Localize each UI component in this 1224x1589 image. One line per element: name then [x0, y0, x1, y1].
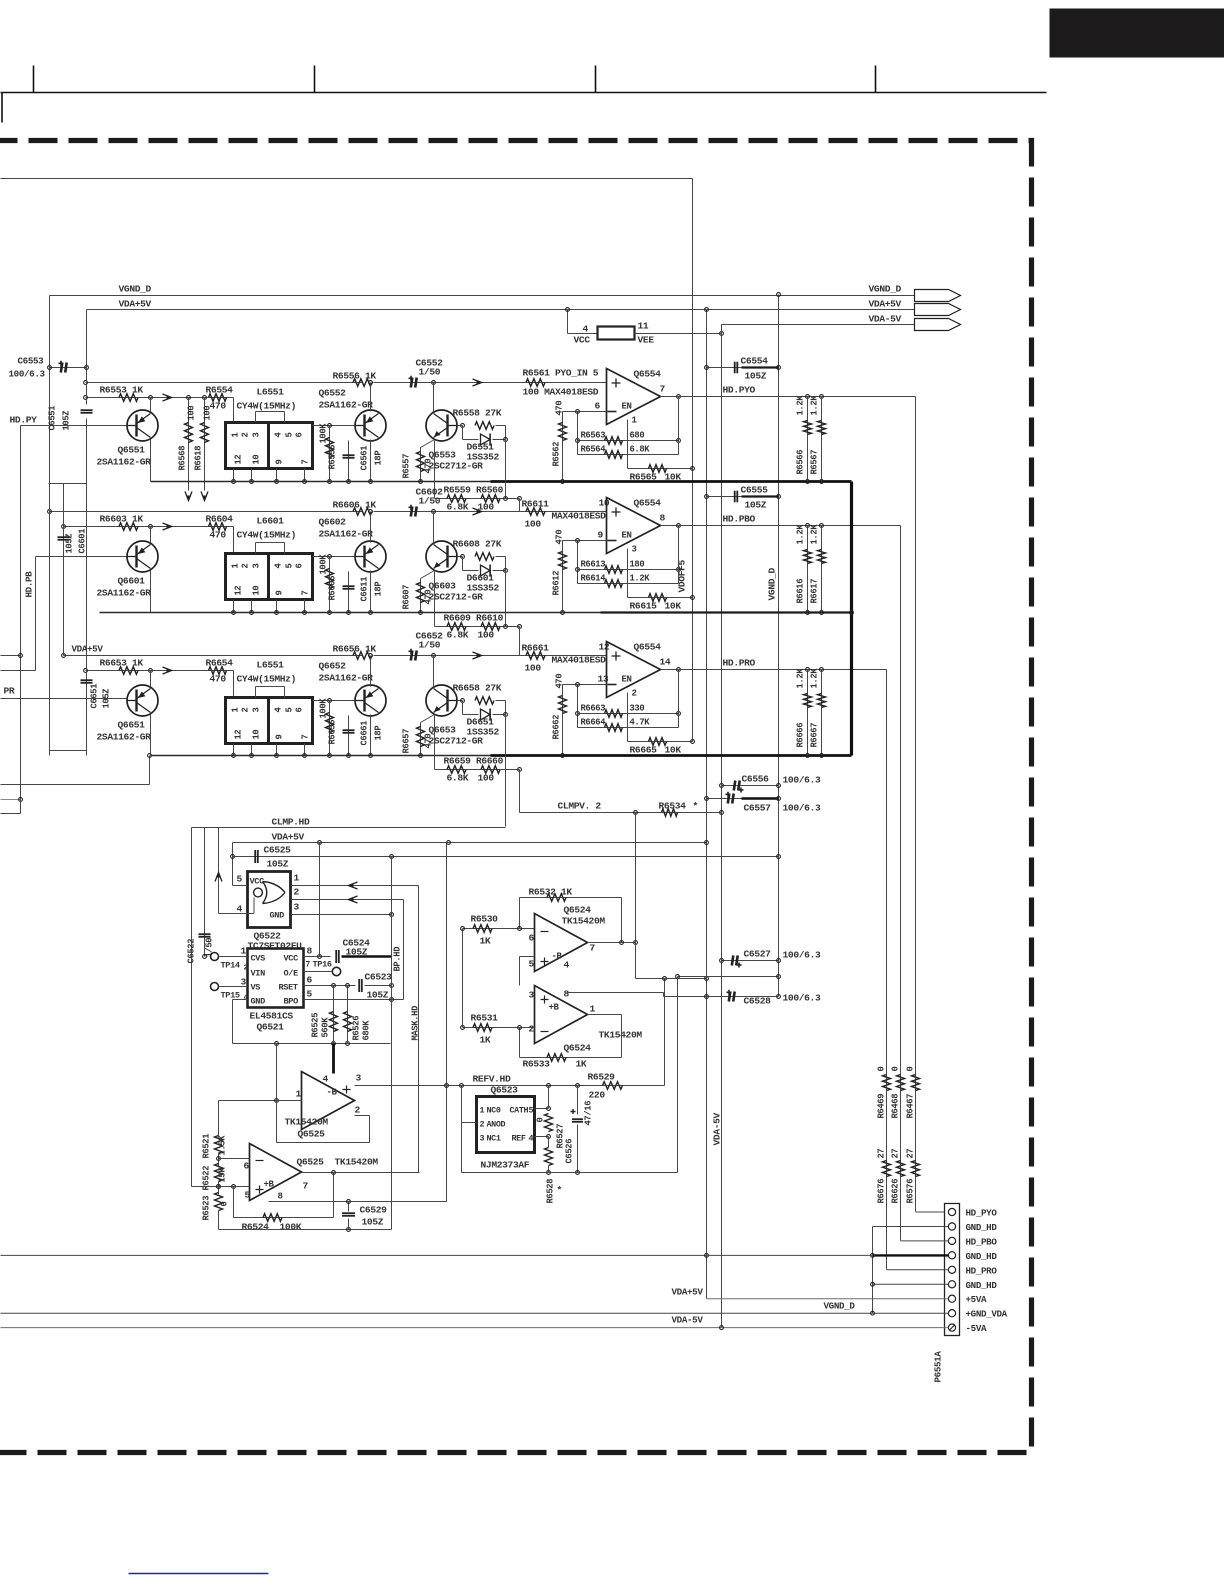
svg-text:3: 3 — [356, 1073, 362, 1084]
resistor 470 input — [559, 696, 567, 714]
tick mark 3 — [595, 66, 597, 93]
svg-text:18P: 18P — [374, 726, 384, 741]
svg-text:15K: 15K — [218, 1167, 228, 1183]
svg-text:-5VA: -5VA — [966, 1323, 987, 1334]
junction — [504, 569, 508, 573]
wire op2 +in — [192, 1186, 250, 1188]
wire left rail A — [49, 296, 51, 756]
wire PR bias path — [86, 670, 234, 672]
junction — [19, 654, 23, 658]
wire NJM bottom — [462, 1172, 678, 1174]
svg-text:100K: 100K — [319, 698, 329, 719]
junction — [390, 984, 394, 988]
svg-text:9: 9 — [275, 591, 285, 596]
wire coupling to R6534 — [519, 770, 521, 813]
junction — [232, 480, 236, 484]
rail row PY — [151, 481, 852, 483]
capacitor C6525 105Z — [254, 850, 256, 863]
svg-text:R6616: R6616 — [796, 579, 806, 604]
wire L bottom stub — [304, 744, 306, 756]
junction — [504, 438, 508, 442]
wire VDOFF5 vertical — [692, 179, 694, 742]
wire chain mid1 — [218, 1154, 220, 1167]
wire L out to Q6602 — [313, 556, 355, 558]
resistor R6611 100 — [526, 508, 545, 516]
resistor R6469 0 — [883, 1075, 891, 1091]
wire L bottom stub — [251, 600, 253, 613]
connector pin 8 +GND_VDA — [948, 1310, 955, 1317]
svg-text:BPO: BPO — [284, 997, 299, 1007]
wire fb b — [578, 727, 679, 729]
junction — [547, 1135, 551, 1139]
svg-text:VGND_D: VGND_D — [869, 284, 902, 295]
wire HD.PY down — [20, 426, 22, 800]
svg-text:+B: +B — [264, 1180, 275, 1190]
q6524a + sign — [541, 958, 549, 966]
svg-text:4: 4 — [323, 1074, 329, 1085]
svg-text:R6525: R6525 — [311, 1013, 321, 1038]
svg-text:BP.HD: BP.HD — [393, 947, 403, 972]
resistor 100K — [326, 569, 334, 589]
junction — [777, 797, 781, 801]
wire none — [219, 856, 233, 858]
svg-text:R6608 27K: R6608 27K — [453, 539, 502, 550]
svg-text:470: 470 — [210, 674, 227, 685]
svg-text:8: 8 — [278, 1192, 283, 1202]
svg-text:2: 2 — [294, 887, 300, 898]
wire C6526 top — [577, 1086, 579, 1115]
svg-text:L6601: L6601 — [257, 516, 285, 527]
svg-text:7: 7 — [301, 735, 311, 740]
junction — [347, 1200, 351, 1204]
svg-text:5: 5 — [285, 433, 295, 438]
svg-text:HD_PYO: HD_PYO — [966, 1208, 998, 1219]
svg-text:5: 5 — [285, 564, 295, 569]
wire CATH out — [535, 1108, 549, 1110]
svg-text:C6661: C6661 — [360, 721, 370, 746]
junction — [518, 497, 522, 501]
wire L bottom stub — [251, 469, 253, 482]
svg-text:100/6.3: 100/6.3 — [783, 950, 821, 961]
wire C6522 drop — [204, 828, 206, 957]
junction — [576, 1171, 580, 1175]
svg-text:1/50: 1/50 — [419, 367, 441, 378]
wire L bottom stub — [276, 469, 278, 482]
svg-text:1: 1 — [231, 433, 241, 438]
svg-text:470: 470 — [555, 674, 565, 689]
svg-text:R6656 1K: R6656 1K — [333, 644, 377, 655]
wire opamp out — [661, 396, 679, 398]
wire left rail B upper — [86, 310, 88, 405]
flow arrow on PY bias — [163, 394, 172, 401]
wire r6528 top — [548, 1137, 550, 1148]
svg-text:470: 470 — [555, 401, 565, 416]
svg-text:9: 9 — [275, 735, 285, 740]
svg-text:Q6554: Q6554 — [634, 369, 662, 380]
arrow left pin2 — [349, 896, 358, 903]
capacitor C6556 100/6.3 — [734, 781, 736, 791]
junction — [217, 1157, 221, 1161]
op-amp Q6525 TK15420M upper — [302, 1072, 355, 1130]
wire 1.2K drop — [821, 670, 823, 756]
junction — [705, 841, 709, 845]
resistor R6667 1.2K — [818, 694, 826, 708]
svg-text:R6614: R6614 — [581, 574, 607, 584]
wire left rail C — [63, 484, 65, 656]
wire fb2 right — [621, 1015, 623, 1058]
wire none2 — [520, 986, 535, 994]
svg-text:R6468: R6468 — [891, 1094, 901, 1119]
wire chain mid2 — [218, 1182, 220, 1195]
wire Q6603 emitter to coupling — [434, 572, 436, 627]
svg-text:+GND_VDA: +GND_VDA — [966, 1309, 1008, 1320]
svg-text:R6528: R6528 — [546, 1179, 556, 1204]
wire C6528 net — [664, 996, 779, 998]
resistor R6566 1.2K — [804, 421, 812, 435]
wire chain bottom — [218, 1211, 220, 1230]
wire Q6601 emitter down — [150, 571, 152, 613]
svg-text:GND_HD: GND_HD — [966, 1222, 998, 1233]
resistor R6618 100 — [201, 423, 209, 443]
junction — [871, 1254, 875, 1258]
svg-text:R6603 1K: R6603 1K — [100, 514, 144, 525]
svg-text:VDA+5V: VDA+5V — [272, 832, 305, 843]
junction — [576, 683, 580, 687]
svg-text:220: 220 — [589, 1090, 606, 1101]
svg-text:1/50: 1/50 — [205, 938, 215, 958]
junction — [677, 524, 681, 528]
wire L top bracket — [256, 411, 285, 413]
junction — [148, 754, 152, 758]
wire 10K to VDOFF5 — [628, 597, 693, 599]
svg-text:R6529: R6529 — [588, 1072, 616, 1083]
wire pin2 GND — [873, 1226, 949, 1228]
wire HD.PBO net — [679, 525, 901, 527]
wire VDA-5V rail — [722, 324, 915, 326]
wire q6524a +in — [520, 956, 535, 958]
wire PY signal to opamp — [374, 382, 607, 384]
wire Q6602 up — [370, 512, 372, 543]
resistor R6533 1K — [547, 1054, 566, 1062]
resistor R6531 1K — [473, 1024, 492, 1032]
op-amp Q6524 TK15420M upper — [535, 914, 588, 972]
capacitor 18P C6561 — [343, 454, 355, 456]
wire fb right — [369, 1116, 371, 1143]
svg-text:1K: 1K — [480, 1035, 491, 1046]
wire HD_PYO drop — [915, 397, 917, 1212]
wire HD.PYO net — [679, 396, 916, 398]
svg-text:R6659 R6660: R6659 R6660 — [444, 756, 504, 767]
wire 27K to node — [496, 556, 506, 558]
svg-text:R6534: R6534 — [659, 801, 687, 812]
wire -in drop — [577, 412, 579, 455]
wire MASK.HD vertical — [418, 886, 420, 1173]
inductor L6601 CY4W(15MHz) — [226, 554, 313, 600]
svg-text:10K: 10K — [665, 745, 682, 756]
wire out to fb — [678, 526, 680, 584]
wire +B net — [269, 1201, 447, 1203]
net flag arrow 1 — [915, 290, 961, 302]
wire L top bracket — [256, 542, 285, 544]
svg-text:R6555: R6555 — [328, 445, 338, 470]
junction — [806, 754, 810, 758]
junction — [566, 308, 570, 312]
svg-text:3: 3 — [632, 545, 637, 555]
wire R6534 net — [520, 812, 722, 814]
junction — [504, 713, 508, 717]
capacitor C6557 100/6.3 — [728, 794, 730, 804]
junction — [203, 396, 207, 400]
wire 470 drop — [420, 448, 422, 482]
junction — [720, 811, 724, 815]
svg-text:R6568: R6568 — [178, 446, 188, 471]
svg-text:C6527: C6527 — [744, 949, 772, 960]
wire L bottom stub — [304, 600, 306, 613]
wire C6556 net — [722, 785, 779, 787]
dashed schematic frame — [0, 141, 1032, 1453]
resistor 100 R6660 — [481, 766, 500, 774]
wire 27K to node — [496, 700, 506, 702]
svg-text:4: 4 — [274, 432, 284, 438]
junction — [419, 480, 423, 484]
svg-text:4: 4 — [583, 324, 589, 335]
junction — [275, 754, 279, 758]
svg-text:VDA+5V: VDA+5V — [869, 299, 902, 310]
wire to 27K — [458, 700, 463, 702]
resistor R6554 470 — [209, 394, 227, 402]
capacitor C6523 105Z — [358, 979, 360, 992]
svg-text:Q6554: Q6554 — [634, 498, 662, 509]
wire pin1 — [916, 1211, 945, 1213]
junction — [561, 611, 565, 615]
thick lead C6554 — [742, 366, 779, 368]
svg-text:105Z: 105Z — [346, 947, 368, 958]
junction — [806, 524, 810, 528]
svg-text:CATH: CATH — [510, 1106, 529, 1116]
wire anode drop — [462, 557, 464, 571]
svg-text:0: 0 — [877, 1067, 887, 1072]
capacitor 18P C6661 — [343, 729, 355, 731]
wire R6529 up — [664, 979, 666, 1086]
wire node to CLMP — [505, 715, 507, 827]
svg-text:Q6524: Q6524 — [564, 1043, 592, 1054]
resistor 100K — [326, 438, 334, 458]
inductor L6551 CY4W(15MHz) — [226, 698, 313, 744]
svg-text:100: 100 — [525, 663, 542, 674]
capacitor C6551 105Z — [81, 409, 93, 411]
svg-text:105Z: 105Z — [745, 500, 767, 511]
svg-text:6: 6 — [244, 1161, 250, 1172]
wire diode out — [493, 570, 506, 572]
wire HD.PRO net — [679, 669, 887, 671]
junction — [390, 855, 394, 859]
junction — [777, 293, 781, 297]
wire node to coupling — [505, 440, 507, 499]
wire stub down — [20, 800, 22, 814]
junction — [48, 510, 52, 514]
wire L bottom stub — [233, 469, 235, 482]
wire R6530 net — [463, 928, 535, 930]
resistor R6665 10K — [649, 738, 667, 746]
wire gate pin3 out — [291, 914, 392, 916]
svg-text:R6654: R6654 — [206, 658, 234, 669]
wire fb2 left — [519, 1028, 521, 1058]
wire opamp out — [661, 669, 679, 671]
wire L top stub b — [284, 412, 286, 423]
wire mid GND long b — [707, 1254, 873, 1256]
svg-text:HD.PY: HD.PY — [10, 415, 38, 426]
svg-text:4: 4 — [274, 707, 284, 713]
wire gate pin5 — [233, 885, 248, 887]
resistor R6529 220 — [603, 1082, 623, 1090]
svg-text:GND_HD: GND_HD — [966, 1251, 998, 1262]
capacitor 18P C6611 — [343, 585, 355, 587]
thick wire to opamp Q6525 pin4 — [332, 1044, 335, 1074]
junction — [347, 1228, 351, 1232]
connector pin 5 HD_PRO — [948, 1266, 955, 1273]
wire VGND_D rail — [50, 295, 915, 297]
svg-text:CY4W(15MHz): CY4W(15MHz) — [237, 530, 296, 541]
junction — [85, 366, 89, 370]
svg-text:470: 470 — [424, 590, 434, 605]
wire pin2 drop — [403, 900, 405, 1000]
svg-text:10: 10 — [252, 455, 262, 465]
svg-text:7: 7 — [590, 943, 596, 954]
junction — [48, 366, 52, 370]
junction — [576, 439, 580, 443]
wire gate pin1 out — [291, 885, 419, 887]
wire gate pin4 — [219, 913, 248, 915]
wire Q6601 collector up — [150, 527, 152, 543]
wire coupling to PR in — [519, 627, 521, 656]
wire pin6 GND — [873, 1283, 949, 1285]
wire EN stub — [627, 693, 629, 742]
op-amp Q6554 MAX4018ESD — [607, 369, 661, 425]
svg-text:9: 9 — [275, 460, 285, 465]
connector pin 7 +5VA — [948, 1295, 955, 1302]
svg-text:105Z: 105Z — [102, 689, 112, 709]
wire fb a — [578, 713, 679, 715]
wire fb right drop — [621, 898, 623, 943]
svg-text:VDA+5V: VDA+5V — [72, 644, 104, 655]
wire op1 -in — [219, 1100, 302, 1102]
wire mid drop 446 — [446, 843, 448, 1202]
wire left in to rail3 — [1, 784, 150, 786]
svg-text:5: 5 — [307, 989, 313, 1000]
svg-text:100K: 100K — [319, 554, 329, 575]
svg-text:R6662: R6662 — [552, 715, 562, 740]
svg-text:R6657: R6657 — [402, 729, 412, 754]
q6524a - sign — [541, 931, 549, 933]
junction — [720, 1326, 724, 1330]
connector P6551A body — [945, 1204, 960, 1336]
svg-text:VS: VS — [251, 983, 261, 993]
wire PR base — [1, 698, 127, 700]
svg-text:6: 6 — [295, 708, 305, 713]
svg-text:11: 11 — [638, 321, 649, 332]
svg-text:R6664: R6664 — [581, 718, 607, 728]
wire VDA-5V down rail — [721, 325, 723, 1328]
wire node to coupling — [505, 571, 507, 627]
svg-text:7: 7 — [301, 460, 311, 465]
svg-text:6: 6 — [295, 564, 305, 569]
svg-text:C6561: C6561 — [360, 446, 370, 471]
svg-text:R6564: R6564 — [581, 445, 607, 455]
wire anode drop — [462, 701, 464, 715]
wire +in link — [519, 957, 521, 986]
svg-text:R6615: R6615 — [630, 601, 658, 612]
junction — [461, 555, 465, 559]
svg-text:1: 1 — [632, 416, 638, 426]
resistor fb a — [605, 710, 623, 718]
wire into inductor — [233, 671, 235, 698]
svg-text:R6612: R6612 — [552, 571, 562, 596]
svg-text:7: 7 — [301, 591, 311, 596]
resistor fb a — [605, 566, 623, 574]
svg-text:C6557: C6557 — [744, 803, 772, 814]
wire 1.2K drop — [807, 526, 809, 613]
junction — [328, 699, 332, 703]
capacitor C6554 105Z — [734, 362, 736, 374]
svg-text:1.2K: 1.2K — [810, 524, 820, 545]
svg-text:470: 470 — [424, 459, 434, 474]
resistor R6604 470 — [209, 523, 227, 531]
svg-text:HD.PYO: HD.PYO — [723, 385, 756, 396]
page top rule — [1, 92, 1047, 94]
resistor R6558 27K — [475, 553, 494, 561]
wire Q6551 emitter down — [150, 440, 152, 482]
resistor R6616 1.2K — [804, 550, 812, 564]
wire L bottom stub — [304, 469, 306, 482]
svg-text:0: 0 — [891, 1067, 901, 1072]
svg-text:4: 4 — [529, 1134, 534, 1144]
svg-text:5: 5 — [285, 708, 295, 713]
svg-text:6.8K: 6.8K — [630, 445, 651, 455]
svg-text:CY4W(15MHz): CY4W(15MHz) — [237, 401, 296, 412]
junction — [777, 366, 781, 370]
wire op2 out — [302, 1172, 420, 1174]
transistor Q6553 2SC2712-GR — [426, 410, 457, 441]
svg-text:MASK.HD: MASK.HD — [411, 1006, 421, 1041]
wire REFV.HD from op1 — [355, 1085, 462, 1087]
wire Q6553 emitter to coupling — [434, 441, 436, 499]
wire 978 link — [636, 978, 707, 980]
junction — [332, 1171, 336, 1175]
wire R6568 drop — [188, 398, 190, 491]
resistor R6626 27 — [897, 1161, 905, 1177]
wire L top stub a — [255, 687, 257, 698]
resistor R6567 1.2K — [818, 421, 826, 435]
svg-text:3: 3 — [294, 902, 300, 913]
capacitor C6602 1/50 — [411, 507, 413, 517]
resistor 470 vert — [417, 452, 425, 472]
resistor R6617 1.2K — [818, 550, 826, 564]
transistor Q6603 2SC2712-GR — [426, 541, 457, 572]
junction — [250, 480, 254, 484]
svg-text:VDA+5V: VDA+5V — [119, 299, 152, 310]
svg-text:680K: 680K — [362, 1020, 372, 1041]
resistor R6606 1K — [353, 508, 372, 516]
svg-text:L6551: L6551 — [257, 660, 285, 671]
svg-text:1: 1 — [590, 1004, 596, 1015]
wire chain top — [218, 1101, 220, 1138]
wire node down — [505, 701, 507, 715]
junction — [419, 611, 423, 615]
inductor L6551 CY4W(15MHz) — [226, 423, 313, 469]
wire C6527 net — [722, 960, 779, 962]
junction — [806, 480, 810, 484]
wire -in drop — [577, 685, 579, 728]
